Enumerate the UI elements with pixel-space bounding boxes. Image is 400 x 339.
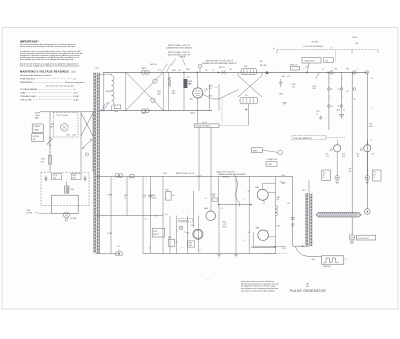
- svg-text:5970: 5970: [107, 103, 110, 105]
- svg-text:1: 1: [372, 108, 373, 110]
- svg-text:+1: +1: [345, 259, 347, 261]
- svg-text:PULSE POLARITY: PULSE POLARITY: [196, 125, 212, 128]
- svg-text:4T5x: 4T5x: [356, 154, 359, 156]
- svg-text:p8: p8: [273, 48, 275, 50]
- svg-text:F101: F101: [41, 159, 45, 161]
- svg-text:[DANGER HIGH VOLT RANGE]: [DANGER HIGH VOLT RANGE]: [167, 46, 192, 49]
- svg-text:.05: .05: [316, 113, 318, 115]
- svg-text:PULS: PULS: [369, 126, 373, 128]
- svg-text:+6.8: +6.8: [247, 191, 250, 193]
- svg-text:50: 50: [371, 140, 373, 142]
- svg-text:4T5: 4T5: [326, 156, 329, 158]
- svg-text:R8xx: R8xx: [67, 134, 71, 136]
- svg-text:4T5x: 4T5x: [326, 154, 329, 156]
- svg-text:1T5x: 1T5x: [373, 172, 376, 174]
- svg-text:(but map a top of the wiring s: (but map a top of the wiring side): [46, 84, 74, 87]
- svg-text:(AB): (AB): [35, 117, 39, 120]
- svg-text:1x50uF: 1x50uF: [152, 198, 157, 200]
- svg-text:[4T5x: [4T5x: [342, 154, 346, 156]
- svg-text:the to answer supply these tol: the to answer supply these tolerance not…: [20, 65, 80, 68]
- svg-text:2000: 2000: [53, 178, 57, 180]
- svg-text:R8: R8: [156, 215, 158, 217]
- svg-text:390: 390: [277, 199, 280, 201]
- svg-text:NE-2: NE-2: [50, 126, 54, 128]
- svg-text:R84: R84: [346, 68, 349, 70]
- svg-text:1 2: 1 2: [330, 47, 332, 49]
- svg-text:C80: C80: [205, 69, 208, 71]
- svg-text:1.2k: 1.2k: [178, 70, 181, 72]
- svg-text:(SEMI RE): (SEMI RE): [323, 266, 331, 268]
- svg-text:SW: SW: [41, 161, 44, 163]
- svg-text:C872: C872: [277, 226, 281, 228]
- svg-text:2RCL: 2RCL: [72, 178, 76, 180]
- svg-text:B82: B82: [51, 124, 54, 126]
- svg-text:+ 150: + 150: [185, 77, 189, 79]
- svg-text:TRANS: TRANS: [33, 128, 40, 131]
- svg-text:R800: R800: [114, 111, 118, 113]
- svg-text:C876: C876: [205, 89, 209, 91]
- svg-text:5x: 5x: [215, 87, 217, 89]
- svg-text:T80: T80: [95, 68, 98, 70]
- svg-text:LW: LW: [33, 139, 36, 141]
- svg-text:FUSE PROJECT: FUSE PROJECT: [20, 78, 36, 80]
- svg-text:5642 5x42: 5642 5x42: [150, 64, 157, 66]
- svg-text:5x5: 5x5: [245, 95, 248, 97]
- svg-text:R841: R841: [166, 189, 170, 191]
- svg-text:5696: 5696: [313, 86, 317, 88]
- svg-text:75k: 75k: [143, 197, 145, 199]
- svg-text:+ CONNECTOR: + CONNECTOR: [266, 159, 278, 161]
- svg-text:R801: R801: [172, 70, 176, 72]
- svg-text:V 88: V 88: [305, 67, 308, 69]
- svg-text:125: 125: [124, 198, 126, 200]
- svg-text:C833: C833: [316, 111, 320, 113]
- svg-text:117 VAC: 117 VAC: [70, 217, 77, 220]
- svg-text:+8: +8: [244, 198, 246, 200]
- svg-text:R8x: R8x: [349, 169, 352, 171]
- svg-text:[ 5 VOLT MODE RANGE ]: [ 5 VOLT MODE RANGE ]: [303, 45, 324, 48]
- svg-text:MAINTENO 2 VOLTAGE READINGS: MAINTENO 2 VOLTAGE READINGS: [20, 70, 69, 74]
- svg-text:T: T: [274, 69, 275, 71]
- svg-text:T800: T800: [70, 189, 74, 191]
- svg-text:C8: C8: [322, 69, 324, 71]
- svg-text:20uF: 20uF: [189, 245, 192, 247]
- svg-text:1 BK: 1 BK: [355, 43, 358, 45]
- svg-text:P50: P50: [349, 171, 352, 173]
- svg-text:1 RES: 1 RES: [267, 164, 271, 166]
- svg-text:F102: F102: [163, 173, 167, 175]
- svg-text:ORCL: ORCL: [72, 175, 77, 177]
- svg-text:LOAD: LOAD: [20, 91, 26, 94]
- svg-text:C84 1: C84 1: [118, 176, 122, 178]
- svg-text:CR801: CR801: [141, 68, 146, 70]
- svg-text:APPROX LINE TYP LOW 5.2kV P-P: APPROX LINE TYP LOW 5.2kV P-P: [206, 59, 234, 62]
- svg-text:RESISTANCE: RESISTANCE: [20, 81, 33, 84]
- svg-text:R80x BLK: R80x BLK: [260, 65, 267, 67]
- svg-text:C840: C840: [124, 195, 128, 197]
- svg-text:T.B(TRK): T.B(TRK): [106, 91, 112, 93]
- svg-text:+ CILT: + CILT: [222, 224, 226, 226]
- svg-text:IMPORTANT!: IMPORTANT!: [20, 39, 39, 43]
- svg-text:R849: R849: [212, 194, 216, 196]
- svg-text:C8(1): C8(1): [172, 91, 176, 93]
- svg-text:Recmnd arrangement: Recmnd arrangement: [65, 81, 85, 84]
- svg-text:100: 100: [209, 88, 212, 90]
- svg-text:but multivibr set in the all c: but multivibr set in the all circuit vol…: [20, 58, 74, 61]
- svg-text:1 2xx 5x: 1 2xx 5x: [196, 176, 201, 178]
- svg-text:1 50x: 1 50x: [143, 195, 147, 197]
- svg-text:R806: R806: [292, 84, 296, 86]
- svg-text:24 BKT: 24 BKT: [352, 37, 357, 39]
- svg-text:L802: L802: [244, 66, 248, 68]
- svg-text:1T5x: 1T5x: [323, 172, 326, 174]
- svg-text:C842: C842: [189, 242, 193, 244]
- svg-text:[4T5: [4T5: [372, 154, 375, 156]
- svg-text:1 T 2: 1 T 2: [158, 70, 162, 72]
- svg-text:+10: +10: [204, 198, 207, 200]
- svg-text:5W RED: 5W RED: [312, 42, 320, 44]
- svg-text:9: 9: [208, 280, 209, 282]
- svg-text:6.3 AC: 6.3 AC: [73, 95, 80, 98]
- svg-text:R805 1.8k: R805 1.8k: [290, 64, 297, 66]
- svg-text:P1 B0: P1 B0: [281, 175, 285, 177]
- svg-text:C834: C834: [336, 110, 340, 112]
- svg-text:GBLV: GBLV: [157, 91, 161, 93]
- svg-text:LTRISAKE LOAD: LTRISAKE LOAD: [20, 95, 36, 98]
- svg-text:BURCH: BURCH: [33, 136, 40, 138]
- svg-text:TRIG OUTPUT: TRIG OUTPUT: [358, 238, 369, 240]
- svg-text:LTRIG LOAD: LTRIG LOAD: [20, 98, 32, 101]
- svg-text:C83: C83: [346, 91, 349, 93]
- svg-text:PILOT LIGHT: PILOT LIGHT: [57, 115, 69, 117]
- svg-text:5696: 5696: [282, 76, 286, 78]
- svg-text:10k: 10k: [172, 195, 175, 197]
- svg-text:+4 AC: +4 AC: [73, 98, 79, 101]
- svg-text:4T5: 4T5: [357, 156, 360, 158]
- svg-text:+2: +2: [243, 240, 245, 242]
- svg-text:+59 5x: +59 5x: [282, 248, 287, 250]
- svg-text:OUT: OUT: [369, 123, 372, 125]
- svg-text:4 x 9: 4 x 9: [165, 214, 168, 216]
- svg-text:C8: C8: [145, 219, 147, 221]
- svg-text:1.8k: 1.8k: [288, 76, 291, 78]
- svg-text:C847: C847: [222, 222, 226, 224]
- svg-text:547B 1x: 547B 1x: [190, 113, 195, 115]
- svg-text:CR802: CR802: [142, 113, 147, 115]
- svg-text:12 WIR: 12 WIR: [107, 194, 113, 196]
- svg-text:C801: C801: [186, 69, 190, 71]
- svg-text:R813: R813: [209, 96, 213, 98]
- svg-text:5BK: 5BK: [260, 61, 263, 63]
- svg-text:C8: C8: [371, 78, 373, 80]
- svg-text:[QUOTED WIRE 5.2kV P-P]: [QUOTED WIRE 5.2kV P-P]: [168, 54, 190, 56]
- svg-text:AMPL: AMPL: [253, 149, 258, 152]
- svg-text:PULSE GENERATOR: PULSE GENERATOR: [290, 289, 326, 293]
- svg-text:RECTIF: RECTIF: [153, 234, 159, 236]
- svg-text:220k: 220k: [73, 134, 77, 136]
- svg-text:8TK: 8TK: [373, 175, 376, 177]
- svg-text:C86: C86: [287, 203, 290, 205]
- svg-text:4.7: 4.7: [176, 242, 178, 244]
- svg-text:470k: 470k: [292, 86, 296, 88]
- svg-text:R842: R842: [168, 237, 172, 239]
- svg-text:R804: R804: [279, 94, 283, 96]
- svg-text:POWER: POWER: [33, 126, 40, 128]
- svg-text:LBB: LBB: [313, 88, 316, 90]
- svg-text:C8: C8: [221, 208, 223, 210]
- svg-text:transmitters until performed b: transmitters until performed by controll…: [241, 290, 274, 293]
- svg-text:T801: T801: [302, 190, 306, 192]
- svg-text:COMPL NGN: COMPL NGN: [304, 61, 315, 63]
- svg-text:FREQUENCY: FREQUENCY: [180, 220, 189, 222]
- svg-text:VOLTAGE RANGE: VOLTAGE RANGE: [20, 88, 37, 91]
- svg-text:617: 617: [306, 286, 309, 288]
- svg-text:R8: R8: [230, 69, 232, 71]
- svg-text:FILTER: FILTER: [27, 213, 33, 215]
- svg-text:R83: R83: [335, 68, 338, 70]
- svg-text:C870: C870: [277, 197, 281, 199]
- svg-text:8TK: 8TK: [323, 175, 326, 177]
- svg-text:R803 1k: R803 1k: [219, 67, 225, 69]
- svg-text:obtained under following condi: obtained under following conditions:: [20, 74, 52, 77]
- svg-text:.05: .05: [343, 110, 345, 112]
- svg-text:5x4: 5x4: [117, 246, 119, 248]
- svg-text:+1: +1: [303, 69, 305, 71]
- svg-text:value units in line resistance: value units in line resistance with this…: [20, 45, 76, 48]
- svg-text:C813: C813: [209, 86, 213, 88]
- svg-text:R8: R8: [354, 99, 356, 101]
- svg-text:T2 WIR: T2 WIR: [107, 233, 113, 235]
- svg-text:5 BK: 5 BK: [325, 60, 328, 62]
- svg-text:680B: 680B: [256, 227, 260, 229]
